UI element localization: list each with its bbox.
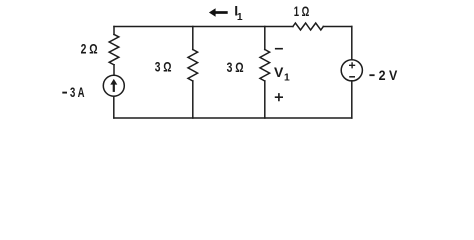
svg-text:3 A: 3 A [70,84,85,100]
voltage source minus sign [349,76,355,78]
wire middle branch 1 lower stub [192,81,194,118]
svg-text:1: 1 [284,73,290,84]
svg-text:2 V: 2 V [379,67,398,83]
svg-text:2 Ω: 2 Ω [81,41,98,57]
wire right branch upper stub [351,27,353,60]
wire top-left segment [114,26,293,28]
wire right branch lower stub [351,81,353,118]
label -3 A [62,84,84,100]
label 3 Ohm second [227,59,244,75]
resistor 3 Ohm second (vertical zigzag) [260,50,270,82]
wire left branch lower stub [113,96,115,118]
label 1 Ohm [294,3,310,19]
current source -3A circle [103,75,124,96]
resistor 2 Ohm (vertical zigzag) [109,34,119,64]
voltage source -2V circle [341,60,362,81]
wire left branch middle stub [113,65,115,75]
wire middle branch 1 upper stub [192,27,194,50]
svg-text:3 Ω: 3 Ω [155,58,172,74]
svg-text:3 Ω: 3 Ω [227,59,244,75]
resistor 1 Ohm (horizontal zigzag) [293,23,323,30]
wire middle branch 2 lower stub [264,81,266,118]
svg-text:V: V [274,64,284,80]
label -2 V [369,67,397,83]
label 2 Ohm [81,41,98,57]
svg-text:1: 1 [237,12,243,23]
wire left branch upper stub [113,27,115,35]
label 3 Ohm first [155,58,172,74]
wire middle branch 2 upper stub [264,27,266,50]
wire bottom [114,117,352,119]
current source arrow (up) [110,79,117,92]
wire top-right segment [323,26,352,28]
label I1 [234,3,243,23]
label V1 [274,64,290,84]
svg-text:1 Ω: 1 Ω [294,3,310,19]
label V1 polarity minus [275,48,283,50]
label V1 polarity plus [275,93,283,101]
resistor 3 Ohm first (vertical zigzag) [188,50,198,82]
current arrow I1 (pointing left) [209,8,228,17]
voltage source plus sign [349,62,355,68]
